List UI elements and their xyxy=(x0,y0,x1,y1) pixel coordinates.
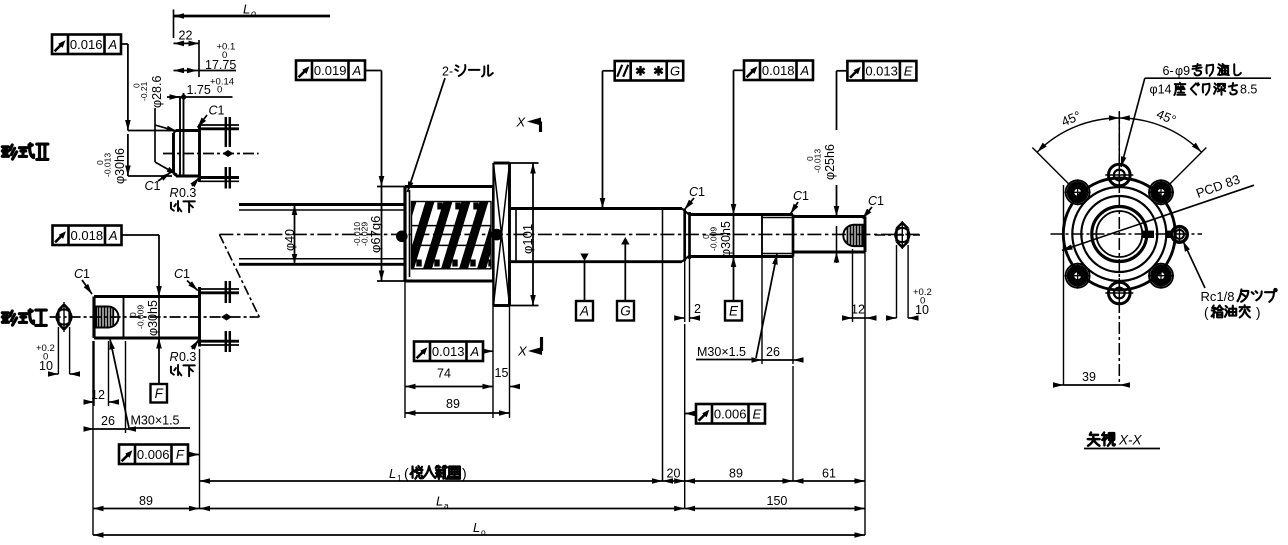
svg-text:74: 74 xyxy=(437,367,451,381)
M30 thread section right xyxy=(761,215,763,257)
Type I hex end view xyxy=(56,305,71,330)
main centerline xyxy=(219,233,920,235)
svg-text:26: 26 xyxy=(101,414,115,428)
right hex end view xyxy=(875,234,920,236)
dimension 10 +0.2/0 (right end) xyxy=(896,245,898,318)
svg-text:φ30h5: φ30h5 xyxy=(146,300,160,336)
Type I break diamond xyxy=(221,314,232,321)
svg-text:A: A xyxy=(579,304,589,319)
svg-text:-0.009: -0.009 xyxy=(136,305,146,329)
Type II thread stub xyxy=(200,124,240,126)
svg-text:0.016: 0.016 xyxy=(70,37,103,52)
datum box A xyxy=(576,301,593,321)
svg-text:X: X xyxy=(517,344,528,359)
extension verticals bottom xyxy=(92,341,94,535)
svg-text:0: 0 xyxy=(43,352,48,363)
bolt hole at 315 deg xyxy=(1149,264,1173,288)
svg-text:-0.21: -0.21 xyxy=(139,81,149,101)
Type II thread break lines xyxy=(225,117,227,147)
bolt hole at 45 deg xyxy=(1149,180,1173,204)
svg-text:o: o xyxy=(251,9,256,19)
svg-text:20: 20 xyxy=(667,467,681,481)
datum box G xyxy=(617,301,634,321)
Type I label 形式I xyxy=(2,311,16,325)
ball circles at nut ends xyxy=(396,231,408,243)
dimension L1 (hardening range) xyxy=(200,480,663,482)
svg-text:R: R xyxy=(170,186,179,200)
svg-text:1: 1 xyxy=(218,104,225,118)
bolt hole at 135 deg xyxy=(1066,180,1090,204)
feature control frame 0.013 E xyxy=(847,61,916,81)
svg-text:E: E xyxy=(904,63,913,78)
svg-text:0.013: 0.013 xyxy=(865,63,898,78)
bolt hole at 270 deg xyxy=(1109,282,1131,304)
dimension phi101 xyxy=(510,162,539,164)
svg-text:26: 26 xyxy=(766,345,780,359)
dimension 26 (Type I) xyxy=(125,341,127,433)
svg-text:0: 0 xyxy=(920,296,925,307)
svg-text:A: A xyxy=(108,228,118,243)
Type II break diamond xyxy=(223,150,234,157)
svg-text:1: 1 xyxy=(83,267,90,281)
dimension 89 (nut) xyxy=(405,412,510,414)
svg-text:8.5: 8.5 xyxy=(1240,83,1257,97)
datum G attach + box xyxy=(621,237,629,245)
dimension 22 xyxy=(198,40,200,77)
svg-text:F: F xyxy=(155,386,164,401)
svg-text:1: 1 xyxy=(183,267,190,281)
svg-text:X-X: X-X xyxy=(1118,433,1143,448)
feature control frame 0.018 A xyxy=(53,226,122,246)
screw thread section lines xyxy=(239,203,405,206)
hardening zone boundary line xyxy=(662,209,664,482)
Type I body M30 + phi30h5 xyxy=(94,297,200,339)
svg-text:89: 89 xyxy=(729,467,743,481)
dimension 17.75 +0.1/0 xyxy=(198,70,237,72)
right journal phi30h5 section xyxy=(690,213,763,216)
svg-text:φ30h6: φ30h6 xyxy=(113,148,127,184)
shoulder undercut at end of thread xyxy=(682,209,690,216)
svg-text:L: L xyxy=(473,520,480,535)
feature control frame 0.018 A xyxy=(744,61,813,81)
svg-text:A: A xyxy=(469,344,479,359)
svg-text:G: G xyxy=(620,304,631,319)
svg-text:15: 15 xyxy=(495,366,509,380)
svg-text:(: ( xyxy=(1204,305,1209,320)
dimension Lo (bottom) xyxy=(93,534,865,536)
svg-text:o: o xyxy=(481,527,486,537)
svg-text:A: A xyxy=(351,63,361,78)
svg-text:22: 22 xyxy=(179,29,193,43)
dimension 74 / 15 xyxy=(404,281,406,418)
svg-text:0: 0 xyxy=(217,85,222,96)
Type II journal body phi30h6 outline xyxy=(174,131,200,177)
feature control frame 0.013 A xyxy=(414,342,483,362)
svg-text:-0.009: -0.009 xyxy=(709,227,719,251)
Type I centerline xyxy=(50,316,260,318)
svg-text:150: 150 xyxy=(767,494,788,508)
45 degree dimension arcs xyxy=(1037,118,1119,152)
svg-text:0.006: 0.006 xyxy=(137,447,170,462)
dimension 12 (right end) xyxy=(852,249,854,322)
dimension 150 xyxy=(685,508,865,510)
svg-text:): ) xyxy=(462,465,467,481)
wrench flats hatched (right end) xyxy=(843,225,864,246)
feature control frame 0.016 A xyxy=(52,35,121,55)
svg-text:(: ( xyxy=(404,465,409,481)
svg-text:1: 1 xyxy=(397,473,402,483)
end view centerlines xyxy=(1051,233,1203,235)
dimension 61 xyxy=(793,480,865,482)
svg-text:2: 2 xyxy=(694,302,701,316)
Type II centerline xyxy=(163,153,259,155)
svg-text:F: F xyxy=(176,447,185,462)
dimension 1.75 +0.14/0 xyxy=(167,96,233,98)
dimension 2 (undercut) xyxy=(684,261,686,322)
svg-text:L: L xyxy=(389,466,396,481)
svg-text:89: 89 xyxy=(139,494,153,508)
svg-text:1: 1 xyxy=(154,179,161,193)
svg-text:1.75: 1.75 xyxy=(187,83,211,97)
45 deg extension lines radial xyxy=(1118,111,1120,164)
datum box E xyxy=(725,301,742,321)
svg-text:89: 89 xyxy=(446,397,460,411)
nut seal line left xyxy=(409,190,411,277)
phi25h6 end section xyxy=(792,215,795,257)
svg-text:a: a xyxy=(444,501,449,511)
svg-text:6-: 6- xyxy=(1163,64,1174,78)
svg-text:E: E xyxy=(729,304,739,319)
feature control frame 0.006 F xyxy=(119,445,188,465)
svg-text:L: L xyxy=(436,494,443,509)
svg-text:φ28.6: φ28.6 xyxy=(150,76,164,108)
svg-text:39: 39 xyxy=(1082,370,1096,384)
flange cross lines xyxy=(494,164,510,305)
svg-text:0.3: 0.3 xyxy=(179,350,196,364)
dimension 89 (left, Type I) xyxy=(93,508,200,510)
Type I wrench flats hatched xyxy=(96,307,119,328)
bolt hole at 90 deg xyxy=(1109,164,1131,186)
dimension 39 xyxy=(1063,185,1065,385)
dimension 10 +0.2/0 (Type I end) xyxy=(57,327,59,374)
end view flange circles xyxy=(1063,178,1175,290)
Type II shoulder xyxy=(198,125,201,183)
svg-text:61: 61 xyxy=(822,467,836,481)
svg-text:0.006: 0.006 xyxy=(714,406,747,421)
svg-text:0.3: 0.3 xyxy=(179,186,196,200)
Type I thread break lines xyxy=(225,281,227,303)
datum A attach + box xyxy=(580,254,588,262)
nut flange xyxy=(494,163,510,306)
svg-text:1: 1 xyxy=(877,194,884,208)
svg-text:1: 1 xyxy=(802,189,809,203)
svg-text:R: R xyxy=(170,350,179,364)
svg-text:2-: 2- xyxy=(442,65,453,79)
svg-text:Rc1/8: Rc1/8 xyxy=(1201,289,1235,304)
svg-text:E: E xyxy=(752,406,761,421)
shaft plain section right of flange xyxy=(510,207,683,210)
feature control frame 0.006 E xyxy=(696,404,765,424)
Type II label 形式II xyxy=(2,145,16,159)
dimension La xyxy=(200,508,685,510)
ball nut outline xyxy=(405,187,493,282)
svg-text:A: A xyxy=(107,37,117,52)
svg-text:M30×1.5: M30×1.5 xyxy=(697,345,746,359)
svg-text:0.013: 0.013 xyxy=(432,344,465,359)
Type II snap-ring groove xyxy=(179,97,181,176)
bolt hole at 225 deg xyxy=(1066,264,1090,288)
svg-text:L: L xyxy=(243,2,250,17)
svg-text:φ14: φ14 xyxy=(1150,83,1172,97)
svg-text:17.75: 17.75 xyxy=(205,58,236,72)
svg-text:φ30h5: φ30h5 xyxy=(719,221,733,257)
datum box F xyxy=(151,384,168,403)
feature control frame G xyxy=(615,61,684,81)
svg-text:0.019: 0.019 xyxy=(314,63,347,78)
dimension phi30h6 0/-0.013 xyxy=(128,130,178,132)
feature control frame 0.019 A xyxy=(296,61,365,81)
svg-text:0.018: 0.018 xyxy=(762,63,795,78)
svg-text:0.018: 0.018 xyxy=(71,228,104,243)
svg-text:-0.029: -0.029 xyxy=(360,222,370,246)
svg-text:G: G xyxy=(670,63,680,78)
Rc1/8 oil hole xyxy=(1142,231,1155,238)
svg-text:-0.013: -0.013 xyxy=(813,149,823,173)
矢視X-X title xyxy=(1088,433,1100,446)
dimension 26 + M30x1.5 (right) xyxy=(761,257,763,365)
dimension Lo top xyxy=(173,10,175,39)
diagonal centerline connecting to main view xyxy=(219,234,259,317)
dimension 12 (Type I) xyxy=(93,341,95,406)
dimension phi67g6 -0.010/-0.029 xyxy=(377,186,405,188)
Type I shoulder + thread stub xyxy=(198,287,201,347)
svg-text:M30×1.5: M30×1.5 xyxy=(131,414,180,428)
svg-text:0: 0 xyxy=(222,50,227,61)
datum E box under phi30h5 xyxy=(733,257,735,302)
svg-text:1: 1 xyxy=(698,185,705,199)
svg-text:X: X xyxy=(516,115,527,130)
svg-text:12: 12 xyxy=(851,303,865,317)
svg-text:): ) xyxy=(1256,305,1261,320)
svg-text:-0.013: -0.013 xyxy=(103,153,113,177)
svg-text:A: A xyxy=(799,63,809,78)
svg-text:φ9: φ9 xyxy=(1175,64,1190,78)
dimension 89 (right) xyxy=(685,480,793,482)
svg-text:φ25h6: φ25h6 xyxy=(823,144,837,180)
